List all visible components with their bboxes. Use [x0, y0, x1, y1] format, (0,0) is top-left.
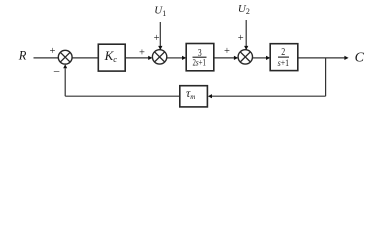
- svg-text:3: 3: [198, 48, 202, 59]
- svg-text:R: R: [18, 48, 27, 62]
- svg-text:C: C: [355, 51, 365, 66]
- svg-text:2s+1: 2s+1: [192, 59, 206, 69]
- svg-text:+: +: [139, 47, 145, 58]
- svg-text:−: −: [53, 64, 60, 78]
- svg-text:2: 2: [281, 47, 285, 58]
- svg-text:+: +: [154, 33, 160, 44]
- svg-text:s+1: s+1: [278, 59, 290, 69]
- svg-text:+: +: [50, 46, 56, 57]
- svg-text:+: +: [238, 33, 244, 44]
- svg-text:+: +: [224, 46, 230, 57]
